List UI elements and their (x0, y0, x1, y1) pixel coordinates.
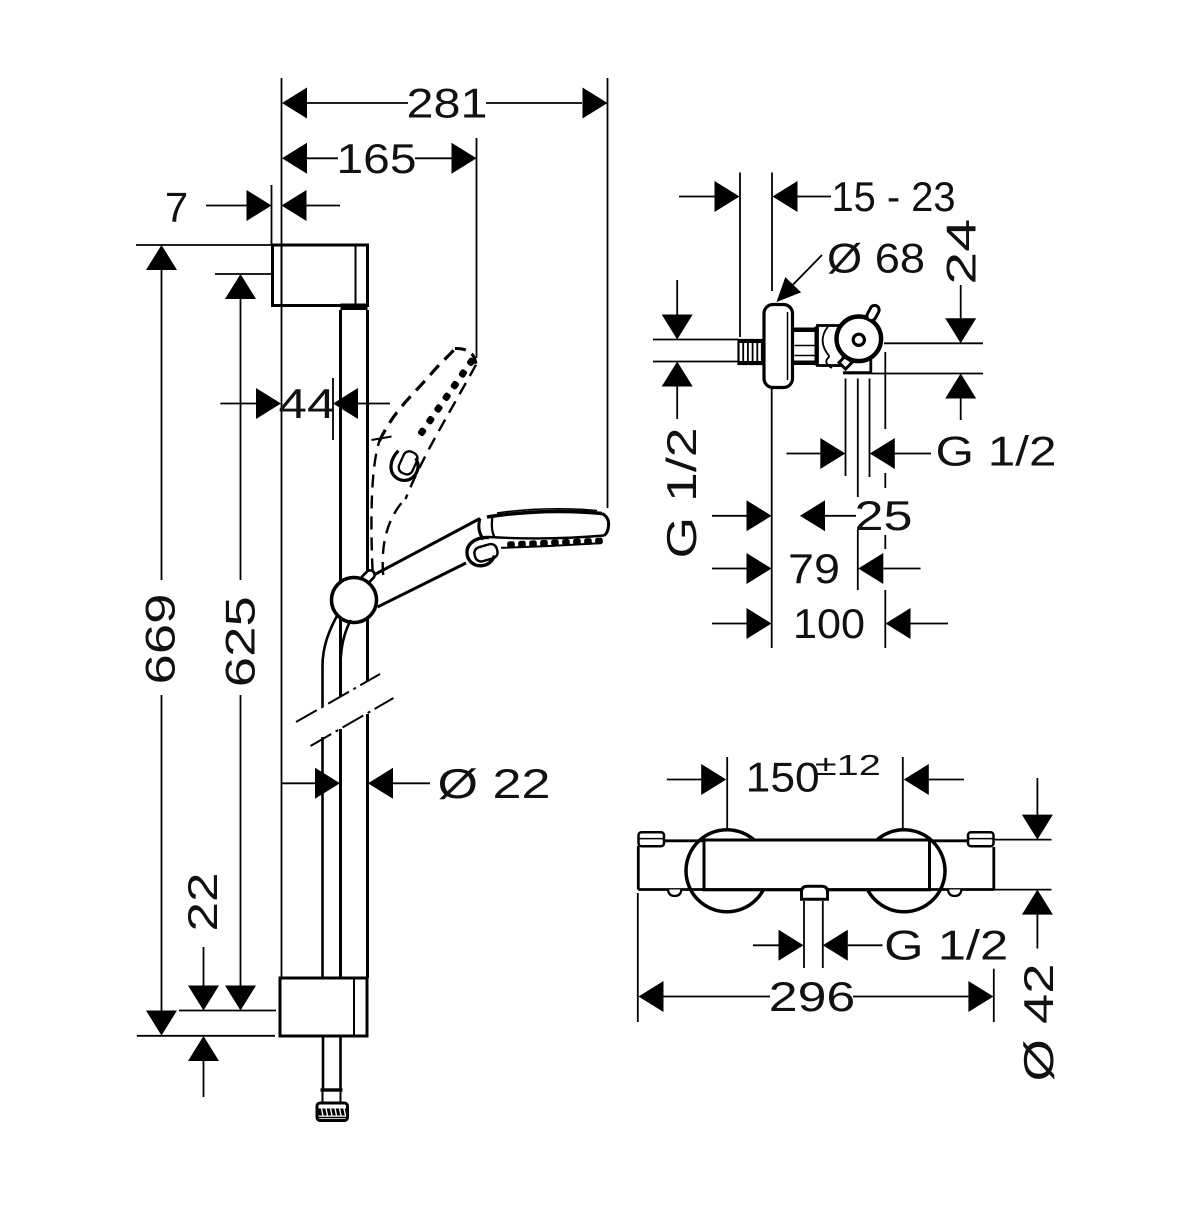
dimension 79 tails (712, 568, 747, 570)
reference line bottom (625/22) (179, 1010, 276, 1012)
svg-text:24: 24 (937, 219, 984, 285)
rail break mark lower (311, 698, 394, 746)
hand shower neck (479, 519, 484, 540)
svg-text:G 1/2: G 1/2 (884, 921, 1008, 968)
thermostat body (704, 840, 930, 890)
svg-text:G 1/2: G 1/2 (658, 428, 705, 559)
dimension 24 line (960, 285, 962, 318)
shower hose curve from slider (323, 614, 339, 666)
dimension 296 arrows (639, 981, 664, 1012)
shower rail left edge (339, 310, 342, 697)
dimension 625 line (240, 299, 242, 580)
thermostat union circle left (686, 830, 768, 912)
dimension diameter 22 arrows (315, 768, 340, 799)
thermostat back plate right (992, 847, 995, 890)
mounting foot left (668, 890, 681, 897)
dimension 150 arrows (701, 764, 726, 795)
wall union: supply pipe lines (653, 339, 739, 341)
dimension 44 arrows (256, 388, 281, 419)
dimension 25 arrows (747, 500, 772, 531)
hand shower dashed handle (upper position) (371, 441, 379, 571)
dimension diameter 22 tails (282, 782, 317, 784)
dimension 165 arrows (282, 143, 307, 174)
rail break mark upper (296, 674, 380, 722)
hand shower head (lower position) (487, 509, 609, 548)
outlet pipe lines right (884, 342, 983, 344)
svg-text:669: 669 (136, 594, 183, 685)
dimension 165 line (307, 157, 338, 159)
thermostat union circle right (863, 830, 945, 912)
dimension diameter 42 arrows (1022, 815, 1053, 840)
reference line bottom (669) (137, 1035, 275, 1037)
dimension diameter 42 extension lines (994, 839, 1052, 841)
dimension G1/2 left arrows (662, 315, 693, 340)
dimension 22 line (203, 947, 205, 986)
hose connection nut (317, 1103, 348, 1121)
wall bracket top (273, 245, 368, 306)
dimension 296 extension lines (637, 893, 639, 1022)
svg-text:25: 25 (855, 492, 913, 539)
hose lines below bracket (322, 1038, 325, 1090)
extension line 165 right (upper shower position) (476, 138, 478, 358)
svg-text:625: 625 (217, 596, 264, 687)
thermostat back plate left (637, 846, 640, 890)
pipe thread (739, 340, 763, 364)
dimension 100 arrows (747, 608, 772, 639)
svg-text:Ø 22: Ø 22 (438, 760, 551, 807)
dimension 281 arrows (282, 88, 307, 119)
shower hose left edge (321, 666, 324, 706)
svg-text:296: 296 (769, 973, 856, 1020)
dimension G1/2 outlet tails (753, 944, 779, 946)
slider knob nub (360, 569, 377, 586)
wall stub left (639, 832, 665, 846)
svg-text:281: 281 (407, 80, 488, 127)
extension line 7 left (bracket face) (271, 185, 273, 245)
dimension 22 arrows (188, 986, 219, 1011)
thermostat back plate bottom (638, 888, 994, 891)
hand shower handle (370, 519, 480, 578)
extension line 281 right (hand shower far edge) (607, 78, 609, 508)
check valve housing (818, 326, 844, 366)
center outlet tab (802, 886, 828, 899)
svg-text:±12: ±12 (815, 750, 881, 782)
reference line top (669) (136, 244, 273, 246)
extension line 44 right (hose outlet axis) (332, 378, 334, 440)
hand shower head dashed (upper position) (379, 348, 476, 499)
dimension 7 tails (206, 205, 247, 207)
valve housing scallops (823, 327, 830, 357)
escutcheon disc (764, 305, 793, 388)
dimension 24 arrows (945, 318, 976, 343)
wall bracket bottom (280, 978, 367, 1036)
dimension 44 tails (220, 403, 256, 405)
svg-text:15 - 23: 15 - 23 (832, 173, 956, 220)
dimension G1/2 outlet arrows (779, 930, 804, 961)
shower rail right edge (366, 310, 369, 681)
wall stub right (968, 832, 994, 846)
spray nozzles (507, 538, 603, 549)
dimension G1/2 valve arrows (820, 438, 845, 469)
holder hook (lower position) (467, 537, 499, 565)
dimension 100 tails (712, 623, 747, 625)
dimension G1/2 valve tails (787, 453, 821, 455)
svg-text:150: 150 (746, 753, 820, 800)
mounting foot right (948, 890, 961, 897)
svg-text:79: 79 (788, 545, 840, 592)
reference line top (625) (215, 273, 273, 275)
svg-text:7: 7 (165, 184, 191, 231)
dimension G1/2 outlet extension lines (803, 901, 805, 968)
dimension 79 arrows (747, 553, 772, 584)
left view: shower rail set - extension line wall/rail axis (281, 78, 283, 978)
dimension 281 line (307, 102, 408, 104)
hand shower handle end mark (372, 437, 392, 441)
dimension 150 tails (667, 779, 701, 781)
extension line 100/79/25 left (771, 389, 773, 648)
dimension 669 arrows (146, 245, 177, 270)
svg-text:22: 22 (179, 873, 226, 932)
valve knob circle (837, 317, 882, 362)
dimension 150 extension lines (726, 757, 728, 830)
dimension 15-23 arrows (715, 181, 740, 212)
dashed spray nozzles (417, 357, 476, 437)
holder hook (upper position) (384, 443, 426, 486)
svg-text:165: 165 (337, 135, 417, 182)
valve knob center (853, 334, 864, 345)
dimension G1/2 left tails (676, 280, 678, 315)
dimension 15-23 tails (679, 196, 715, 198)
dimension 625 arrows (225, 274, 256, 299)
slider knob (332, 578, 377, 623)
valve axis dashed line (884, 352, 886, 429)
extension lines 15-23 (739, 173, 741, 338)
dimension diameter 42 tails (1036, 778, 1038, 815)
dimension 669 line (161, 270, 163, 580)
extension lines below valve (845, 379, 847, 477)
dimension 296 line (664, 996, 771, 998)
hose end collar (321, 1088, 343, 1091)
dimension 7 arrows (247, 190, 272, 221)
dimension 25 tails (712, 515, 747, 517)
svg-text:Ø 68: Ø 68 (827, 235, 925, 282)
svg-text:100: 100 (793, 600, 865, 647)
valve outlet housing (869, 352, 872, 373)
svg-text:Ø 42: Ø 42 (1015, 964, 1062, 1082)
valve pivot square (839, 356, 852, 369)
label diameter 68 leader (779, 255, 823, 300)
union nut (793, 328, 815, 333)
valve knob nub (865, 304, 880, 322)
svg-text:G 1/2: G 1/2 (936, 428, 1057, 475)
svg-text:44: 44 (279, 380, 336, 427)
